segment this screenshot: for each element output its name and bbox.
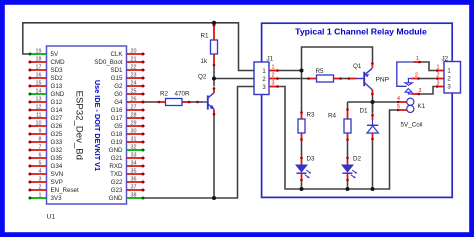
svg-text:G13: G13 — [51, 83, 63, 90]
U1 pin 12 G14 — [29, 109, 47, 111]
svg-text:D3: D3 — [307, 156, 316, 163]
svg-text:PNP: PNP — [376, 77, 390, 84]
U1 pin 38 GND — [127, 197, 145, 199]
svg-text:2: 2 — [272, 73, 275, 79]
svg-text:4: 4 — [39, 168, 42, 174]
svg-text:G27: G27 — [51, 115, 63, 122]
svg-text:5: 5 — [397, 104, 400, 110]
U1 pin 17 SD3 — [29, 69, 47, 71]
relay K1 pin 3 — [412, 93, 420, 95]
U1 pin 11 G27 — [29, 117, 47, 119]
wire R1 bottom to Q2 collector — [213, 67, 215, 87]
svg-text:G26: G26 — [51, 123, 63, 130]
J2 pin 1 — [436, 70, 444, 72]
svg-text:G4: G4 — [114, 99, 123, 106]
svg-text:1: 1 — [416, 56, 419, 62]
svg-text:ESP32_Dev_Bd: ESP32_Dev_Bd — [73, 91, 84, 160]
U1 pin 27 G16 — [127, 109, 145, 111]
svg-text:29: 29 — [131, 120, 137, 126]
svg-text:22: 22 — [131, 64, 137, 70]
wire 5V: U1 pin19 to top rail to J1 pin1 — [23, 23, 254, 71]
svg-text:SD0_Boot: SD0_Boot — [94, 59, 122, 66]
J1 pin 3 — [269, 86, 279, 88]
LED D2 — [347, 157, 349, 165]
U1 pin 37 G23 — [127, 189, 145, 191]
svg-text:5V_Coil: 5V_Coil — [401, 122, 423, 129]
svg-text:37: 37 — [131, 184, 137, 190]
svg-text:1: 1 — [437, 65, 440, 71]
svg-text:30: 30 — [131, 128, 137, 134]
wire module GND rail — [279, 87, 397, 190]
svg-text:Q2: Q2 — [198, 74, 207, 81]
U1 pin 33 G21 — [127, 157, 145, 159]
U1 pin 31 G19 — [127, 141, 145, 143]
node R1 bottom / Q2 collector / J1 pin2 — [212, 77, 216, 81]
wire Q1 collector node to K1 pin4 — [348, 101, 397, 103]
relay K1 coil 5V_Coil — [407, 98, 414, 105]
U1 pin 2 EN_Reset — [29, 189, 47, 191]
U1 pin 3 SVP — [29, 181, 47, 183]
node J1 pin1 / module VCC — [300, 69, 304, 73]
U1 pin 26 G4 — [127, 101, 145, 103]
svg-text:1k: 1k — [201, 58, 209, 65]
svg-text:6: 6 — [39, 152, 42, 158]
svg-text:24: 24 — [131, 80, 137, 86]
svg-text:SD3: SD3 — [51, 67, 64, 74]
transistor Q1 PNP — [363, 72, 365, 86]
wire J1 pin1 to VCC node — [279, 70, 302, 72]
svg-text:3: 3 — [272, 81, 275, 87]
svg-text:Use IDE - DOIT DEVKIT V1: Use IDE - DOIT DEVKIT V1 — [93, 80, 102, 171]
relay K1 contact assembly — [397, 62, 414, 86]
svg-text:G35: G35 — [51, 155, 63, 162]
svg-text:G32: G32 — [51, 147, 63, 154]
svg-text:K1: K1 — [418, 103, 426, 110]
svg-text:R3: R3 — [307, 111, 316, 118]
wire D2 to GND rail — [347, 182, 349, 190]
svg-text:28: 28 — [131, 112, 137, 118]
svg-text:TXD: TXD — [110, 171, 123, 178]
diode D1 — [372, 114, 374, 120]
svg-text:38: 38 — [131, 192, 137, 198]
svg-text:GND: GND — [109, 195, 123, 202]
svg-text:2: 2 — [39, 184, 42, 190]
resistor R3 — [301, 111, 303, 119]
relay K1 pin 4 — [397, 101, 407, 103]
wire relay pin2 to J2 pin2 — [420, 78, 436, 80]
svg-text:3: 3 — [419, 88, 422, 94]
U1 pin 13 G12 — [29, 101, 47, 103]
svg-text:2: 2 — [437, 73, 440, 79]
svg-text:16: 16 — [36, 72, 42, 78]
U1 pin 5 G34 — [29, 165, 47, 167]
svg-text:25: 25 — [131, 88, 137, 94]
svg-text:3: 3 — [437, 81, 440, 87]
svg-text:R2: R2 — [160, 90, 169, 97]
wire GND: U1 pin38 to J1 pin3 — [145, 87, 255, 199]
wire node to D1 — [372, 102, 374, 112]
svg-text:CLK: CLK — [110, 51, 123, 58]
svg-text:12: 12 — [36, 104, 42, 110]
wire node corner to R4 — [347, 102, 349, 108]
svg-text:35: 35 — [131, 168, 137, 174]
svg-text:G19: G19 — [111, 139, 123, 146]
U1 pin 29 G5 — [127, 125, 145, 127]
U1 pin 35 TXD — [127, 173, 145, 175]
relay K1 pin 2 — [411, 78, 420, 80]
svg-text:11: 11 — [36, 112, 42, 118]
wire R2 to Q2 base — [191, 101, 204, 103]
J2 pin 2 — [436, 78, 444, 80]
U1 pin 34 RXD — [127, 165, 145, 167]
U1 pin 19 5V — [29, 53, 47, 55]
U1 pin 9 G25 — [29, 133, 47, 135]
svg-text:26: 26 — [131, 96, 137, 102]
node Q2 emitter / GND wire — [212, 196, 216, 200]
U1 pin 7 G32 — [29, 149, 47, 151]
svg-text:G33: G33 — [51, 139, 63, 146]
svg-text:8: 8 — [39, 136, 42, 142]
LED D3 — [301, 157, 303, 165]
U1 pin 24 G2 — [127, 85, 145, 87]
svg-text:21: 21 — [131, 56, 137, 62]
wire R4 to D2 — [347, 141, 349, 157]
svg-text:Typical 1 Channel Relay Module: Typical 1 Channel Relay Module — [295, 27, 427, 37]
svg-text:14: 14 — [36, 88, 42, 94]
svg-text:470R: 470R — [175, 90, 191, 97]
connector J2 — [444, 62, 461, 94]
resistor R2 470R — [158, 101, 166, 103]
svg-text:D1: D1 — [360, 107, 369, 114]
svg-text:31: 31 — [131, 136, 137, 142]
svg-text:J2: J2 — [442, 55, 449, 62]
wire J1 pin2 to R5 — [279, 78, 307, 80]
svg-text:G12: G12 — [51, 99, 63, 106]
svg-text:G23: G23 — [111, 187, 123, 194]
svg-text:1: 1 — [39, 192, 42, 198]
wire R3 to D3 — [301, 141, 303, 157]
svg-text:J1: J1 — [267, 55, 274, 62]
svg-text:GND: GND — [109, 147, 123, 154]
svg-text:G5: G5 — [114, 123, 123, 130]
transistor Q2 NPN — [207, 95, 209, 109]
svg-text:G25: G25 — [51, 131, 63, 138]
svg-text:R5: R5 — [316, 68, 325, 75]
svg-text:G2: G2 — [114, 83, 123, 90]
connector J1 — [254, 62, 269, 95]
svg-text:G21: G21 — [111, 155, 123, 162]
svg-text:G17: G17 — [111, 115, 123, 122]
U1 pin 30 G18 — [127, 133, 145, 135]
U1 pin 6 G35 — [29, 157, 47, 159]
svg-text:34: 34 — [131, 160, 137, 166]
svg-text:G15: G15 — [111, 75, 123, 82]
svg-text:19: 19 — [36, 48, 42, 54]
resistor R5 — [307, 78, 317, 80]
node Q1 collector / D1 / K1 coil — [371, 100, 375, 104]
svg-text:3: 3 — [39, 176, 42, 182]
J2 pin 3 — [436, 86, 444, 88]
svg-text:Q1: Q1 — [353, 63, 362, 70]
svg-text:G34: G34 — [51, 163, 63, 170]
U1 pin 28 G17 — [127, 117, 145, 119]
U1 pin 14 GND — [29, 93, 47, 95]
svg-text:G0: G0 — [114, 91, 123, 98]
svg-text:EN_Reset: EN_Reset — [51, 187, 79, 194]
U1 pin 20 CLK — [127, 53, 145, 55]
U1 pin 1 3V3 — [29, 197, 47, 199]
wire VCC down to R3 — [301, 71, 303, 112]
svg-text:U1: U1 — [47, 213, 56, 220]
wire Q1 collector to node — [372, 96, 374, 103]
svg-text:23: 23 — [131, 72, 137, 78]
svg-text:10: 10 — [36, 120, 42, 126]
U1 pin 8 G33 — [29, 141, 47, 143]
node 5V rail / R1 top — [212, 21, 216, 25]
wire relay pin3 to J2 pin3 — [420, 87, 436, 95]
U1 pin 21 SD0_Boot — [127, 61, 145, 63]
svg-text:CMD: CMD — [51, 59, 66, 66]
svg-text:5: 5 — [39, 160, 42, 166]
svg-text:5V: 5V — [51, 51, 59, 58]
op U1 ESP32 dev board body — [47, 46, 127, 204]
svg-text:R1: R1 — [201, 33, 210, 40]
svg-text:G18: G18 — [111, 131, 123, 138]
svg-text:G14: G14 — [51, 107, 63, 114]
svg-text:4: 4 — [397, 96, 400, 102]
svg-text:9: 9 — [39, 128, 42, 134]
svg-text:SD2: SD2 — [51, 75, 64, 82]
svg-text:3V3: 3V3 — [51, 195, 63, 202]
U1 pin 25 G0 — [127, 93, 145, 95]
svg-text:36: 36 — [131, 176, 137, 182]
svg-text:G22: G22 — [111, 179, 123, 186]
U1 pin 10 G26 — [29, 125, 47, 127]
U1 pin 16 SD2 — [29, 77, 47, 79]
svg-text:SD1: SD1 — [110, 67, 123, 74]
node D3 / GND rail — [300, 187, 304, 191]
svg-text:27: 27 — [131, 104, 137, 110]
J1 pin 2 — [269, 78, 279, 80]
svg-text:GND: GND — [51, 91, 65, 98]
wire relay pin1 to J2 pin1 — [421, 62, 436, 71]
svg-text:32: 32 — [131, 144, 137, 150]
svg-text:D2: D2 — [353, 156, 362, 163]
svg-text:13: 13 — [36, 96, 42, 102]
svg-text:2: 2 — [415, 72, 418, 78]
U1 pin 15 G13 — [29, 85, 47, 87]
U1 pin 18 CMD — [29, 61, 47, 63]
U1 pin 23 G15 — [127, 77, 145, 79]
U1 pin 36 G22 — [127, 181, 145, 183]
svg-text:SVN: SVN — [51, 171, 64, 178]
svg-text:1: 1 — [272, 65, 275, 71]
wire node to J1 pin2 — [214, 78, 254, 80]
svg-text:15: 15 — [36, 80, 42, 86]
wire D3 to GND rail — [301, 182, 303, 190]
wire Q2 emitter down — [213, 119, 215, 199]
U1 pin 32 GND — [127, 149, 145, 151]
svg-text:20: 20 — [131, 48, 137, 54]
svg-text:33: 33 — [131, 152, 137, 158]
relay K1 pin 5 — [397, 109, 407, 111]
wire D1 to GND rail — [372, 141, 374, 190]
J1 pin 1 — [269, 70, 279, 72]
relay K1 pin 1 — [414, 61, 422, 63]
relay module boundary box — [262, 23, 453, 197]
svg-text:RXD: RXD — [109, 163, 123, 170]
node D1 / GND rail — [371, 187, 375, 191]
svg-text:17: 17 — [36, 64, 42, 70]
svg-text:7: 7 — [39, 144, 42, 150]
resistor R1 1k — [213, 23, 215, 40]
svg-text:R4: R4 — [328, 112, 337, 119]
wire U1 pin26 G4 to R2 — [145, 101, 158, 103]
resistor R4 — [347, 108, 349, 119]
wire R5 to Q1 base — [342, 78, 348, 80]
svg-text:G16: G16 — [111, 107, 123, 114]
svg-text:SVP: SVP — [51, 179, 63, 186]
U1 pin 22 SD1 — [127, 69, 145, 71]
U1 pin 4 SVN — [29, 173, 47, 175]
wire module VCC rail — [302, 47, 373, 71]
node D2 / GND rail — [346, 187, 350, 191]
svg-text:18: 18 — [36, 56, 42, 62]
